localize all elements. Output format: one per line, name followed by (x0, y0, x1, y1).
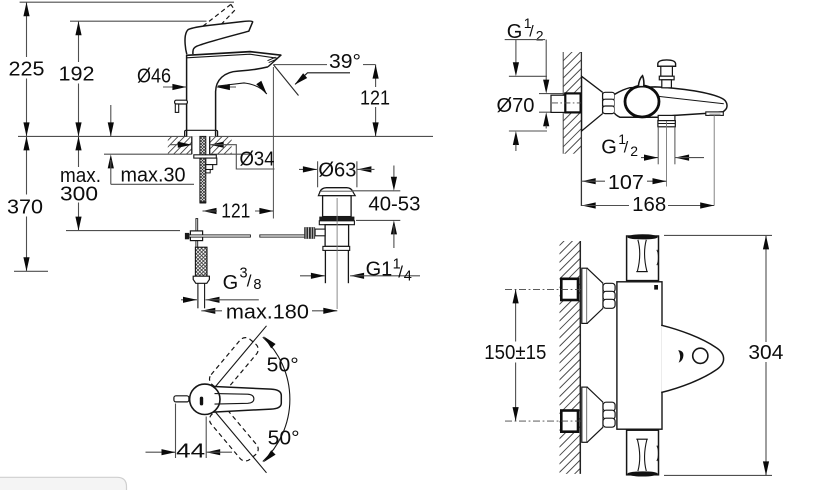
flexible supply hose braid (195, 247, 207, 276)
handle cylinder (627, 430, 659, 475)
dimension 225 (26, 2, 28, 57)
threaded rod (200, 136, 206, 202)
dimension 121 spout height (375, 65, 377, 87)
escutcheon cone (587, 387, 603, 442)
drain neck (323, 196, 352, 217)
svg-text:max.30: max.30 (121, 164, 186, 186)
extension line top of handle (192) (70, 20, 207, 22)
hex nut (603, 402, 615, 427)
dimension diameter 46 (163, 86, 186, 88)
extension line bottom (664, 474, 772, 476)
body right edge and spout underside (216, 67, 268, 136)
spout deck lower line (187, 54, 278, 58)
body left edge (186, 55, 188, 137)
hex nut (603, 283, 615, 308)
spout tip face (268, 55, 281, 67)
svg-text:G: G (223, 272, 239, 294)
hose width arrows (181, 299, 197, 301)
countertop hatching right of shank (198, 137, 267, 155)
svg-text:Ø70: Ø70 (497, 95, 535, 117)
temperature lever spike (638, 76, 644, 87)
svg-text:/: / (624, 139, 629, 156)
handle pivot circle (190, 384, 220, 414)
39 degree leader arrow (295, 73, 350, 85)
drain side port (315, 229, 325, 236)
basin mixer handle (solid) (185, 21, 253, 54)
dimension 370 (26, 136, 28, 194)
dark mark on pivot (200, 397, 203, 406)
countertop surface line (18, 135, 433, 137)
horizontal pop-up rod left segment (189, 235, 251, 237)
spout swivel arc with arrow (218, 83, 267, 94)
countertop underside left segment (104, 153, 192, 155)
dimension 121 horizontal below counter (203, 208, 217, 214)
mixer body with spout (615, 87, 727, 117)
svg-text:G: G (601, 136, 617, 158)
supply nipple through wall (551, 95, 565, 112)
wall back line (562, 52, 564, 154)
dimension diameter 63 drain (299, 168, 317, 170)
svg-text:50°: 50° (268, 428, 300, 450)
hose nut G3/8 (193, 276, 209, 283)
shank nut steps (206, 158, 217, 165)
raised handle dashed bottom edge (202, 10, 235, 45)
svg-text:150±15: 150±15 (484, 342, 546, 364)
countertop underside right segment (210, 153, 251, 155)
G1/2 nut dimension lines (539, 93, 565, 95)
union square nut (565, 93, 580, 112)
aerator outlet tab under spout (706, 112, 724, 116)
union square nut (561, 279, 578, 300)
faucet base plinth (185, 130, 218, 136)
handle pivot dashed arc outer (185, 33, 188, 50)
dimension 168 (582, 202, 596, 208)
wall hatching (558, 224, 582, 490)
thermostat valve body column (617, 282, 662, 429)
svg-text:121: 121 (360, 88, 390, 110)
drain knurled knob (304, 227, 315, 239)
G 1/2 dimension mid (641, 157, 658, 159)
gray ui box bottom-left corner (0, 477, 127, 490)
svg-text:225: 225 (9, 59, 45, 81)
shower outlet stub below body (658, 115, 675, 120)
rod clamp block (190, 231, 202, 241)
drain flange ring (319, 221, 354, 225)
dimension 40-53 (352, 190, 400, 192)
drain centerline (336, 198, 338, 309)
raised handle dashed top edge (189, 4, 231, 37)
svg-text:Ø63: Ø63 (318, 159, 356, 181)
leader arrows from G1/2 label (515, 40, 517, 63)
svg-text:44: 44 (176, 440, 205, 462)
escutcheon base strip (582, 387, 587, 442)
extension line top of raised handle (225) (20, 1, 234, 3)
vertical pop-up rod (196, 219, 198, 248)
dimension max.300 (78, 136, 80, 167)
rod end fitting (185, 233, 189, 239)
svg-text:Ø34: Ø34 (240, 148, 275, 170)
extension lines shower outlet (657, 127, 659, 165)
safe-stop button (654, 285, 658, 290)
diameter 70 dimension lines (509, 75, 547, 77)
shank washer (194, 155, 217, 158)
svg-text:max.180: max.180 (226, 301, 309, 323)
svg-text:2: 2 (536, 28, 544, 44)
cartridge cap circle (625, 86, 659, 117)
svg-text:8: 8 (253, 277, 261, 293)
spout deck top line (187, 52, 282, 56)
swing arc (263, 337, 290, 461)
39 degree reference line horizontal (273, 64, 327, 66)
dimension G 1 1/4 drain thread (300, 275, 325, 277)
drop mark on shield (678, 350, 683, 363)
handle pivot dashed arc inner (192, 29, 194, 47)
39 degree angled line (273, 65, 298, 96)
svg-text:121: 121 (221, 200, 250, 222)
escutcheon base strip (582, 268, 587, 323)
union square nut (561, 411, 578, 432)
angle leg upper (215, 326, 266, 387)
aerator centerline extension (713, 115, 715, 205)
drain tailpipe left edge (324, 250, 326, 283)
svg-text:Ø46: Ø46 (137, 66, 171, 88)
svg-text:300: 300 (60, 184, 98, 206)
svg-text:40-53: 40-53 (368, 193, 420, 215)
svg-text:39°: 39° (329, 51, 361, 73)
dashed handle rotated up 50 deg (207, 335, 261, 394)
wall face line / extension (580, 52, 582, 206)
dimension 150 plus-minus 15 (515, 289, 517, 341)
escutcheon cone (582, 76, 603, 131)
dimension 107 (582, 178, 596, 184)
pop-up waste drain: extension lines for diameter 63 (317, 161, 319, 187)
faucet mounting shank through counter (192, 136, 210, 154)
wall face line (579, 241, 581, 474)
drain cap skirt (318, 192, 355, 196)
angle leg lower (215, 412, 266, 473)
hose end tube right edge (204, 283, 206, 308)
horizontal pop-up rod right segment (260, 235, 306, 237)
pop-up pull rod knob on body (175, 100, 188, 104)
basin mixer body and spout (187, 51, 282, 136)
union centerline bottom (505, 420, 581, 422)
svg-text:4: 4 (404, 269, 412, 285)
lever inner contour (215, 394, 254, 405)
drain body (325, 225, 349, 247)
drain dome cap (320, 188, 353, 192)
svg-text:370: 370 (7, 197, 43, 219)
outlet centerline (666, 121, 668, 187)
svg-text:2: 2 (630, 143, 638, 159)
drain O-ring (319, 217, 354, 221)
extension line bottom (max.300) (66, 230, 180, 232)
belly shield (661, 325, 723, 392)
wall hatching (562, 42, 583, 174)
handle lever nub (174, 396, 189, 402)
button circle on shield (693, 348, 708, 363)
countertop hatching left of shank (154, 137, 216, 155)
dimension max.180 (201, 308, 215, 314)
union centerline (552, 102, 581, 104)
dimension diameter 34 shank (170, 144, 192, 146)
svg-text:192: 192 (59, 64, 95, 86)
escutcheon cone (587, 268, 603, 323)
dimension 192 (78, 21, 80, 62)
extension line top (664, 234, 772, 236)
svg-text:/: / (247, 272, 252, 291)
svg-text:/: / (529, 24, 534, 41)
spout inner contour line (658, 96, 724, 104)
svg-text:107: 107 (608, 172, 644, 194)
dimension 44 (175, 404, 177, 459)
label underline (505, 39, 545, 41)
drain collar (323, 246, 350, 250)
hex connector nut (603, 92, 615, 113)
svg-text:304: 304 (748, 342, 783, 364)
raised handle dashed tip (231, 4, 235, 10)
handle cylinder (627, 236, 659, 281)
drain tailpipe right edge (347, 250, 349, 283)
aerator detail lines at spout tip (268, 57, 278, 62)
dimension max.30 counter thickness (110, 105, 112, 136)
hose end tube left edge (197, 283, 199, 308)
svg-text:168: 168 (632, 194, 666, 216)
union centerline top (505, 288, 581, 290)
dashed handle rotated down 50 deg (207, 405, 261, 464)
handle lever (top view) (209, 386, 281, 412)
diverter knob on top (658, 60, 676, 66)
svg-text:G1: G1 (366, 259, 393, 281)
svg-text:50°: 50° (267, 354, 299, 376)
extension line from spout tip down (272, 67, 274, 219)
svg-text:/: / (398, 263, 403, 282)
extension line bottom (370) (14, 270, 48, 272)
